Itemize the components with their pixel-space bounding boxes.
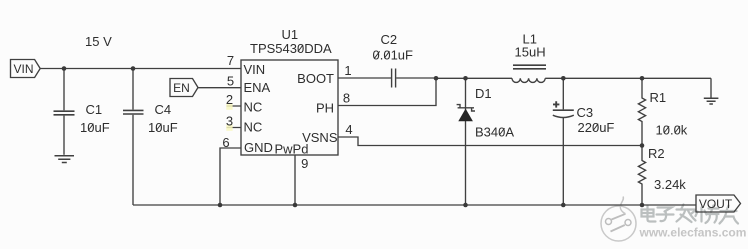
svg-text:C4: C4 (155, 102, 172, 117)
svg-text:9: 9 (301, 156, 308, 171)
svg-text:5: 5 (227, 74, 234, 89)
svg-text:B340A: B340A (475, 125, 514, 140)
svg-text:2: 2 (226, 92, 233, 107)
svg-text:NC: NC (244, 120, 263, 135)
svg-text:U1: U1 (282, 27, 299, 42)
svg-text:EN: EN (173, 81, 190, 95)
svg-text:15 V: 15 V (85, 34, 112, 49)
svg-text:TPS5430DDA: TPS5430DDA (250, 41, 332, 56)
svg-text:R2: R2 (648, 146, 665, 161)
svg-text:4: 4 (345, 122, 352, 137)
svg-text:10.0k: 10.0k (656, 123, 688, 138)
svg-text:www.elecfans.com: www.elecfans.com (639, 226, 747, 240)
svg-text:3: 3 (226, 114, 233, 129)
svg-text:0.01uF: 0.01uF (373, 48, 414, 63)
svg-text:BOOT: BOOT (297, 71, 334, 86)
svg-text:GND: GND (244, 140, 273, 155)
svg-text:VSNS: VSNS (302, 130, 338, 145)
svg-text:VOUT: VOUT (699, 197, 733, 211)
svg-text:10uF: 10uF (80, 120, 110, 135)
svg-text:C2: C2 (381, 32, 398, 47)
svg-text:8: 8 (343, 91, 350, 106)
svg-text:220uF: 220uF (578, 120, 615, 135)
svg-text:ENA: ENA (244, 80, 271, 95)
svg-text:7: 7 (227, 53, 234, 68)
svg-text:3.24k: 3.24k (654, 177, 686, 192)
svg-text:1: 1 (344, 63, 351, 78)
svg-text:PH: PH (316, 101, 334, 116)
svg-text:D1: D1 (475, 86, 492, 101)
svg-text:VIN: VIN (244, 62, 266, 77)
svg-text:VIN: VIN (13, 62, 33, 76)
svg-text:C1: C1 (86, 102, 103, 117)
svg-text:C3: C3 (577, 105, 594, 120)
svg-text:15uH: 15uH (515, 45, 546, 60)
svg-text:10uF: 10uF (148, 120, 178, 135)
svg-text:NC: NC (244, 100, 263, 115)
svg-text:R1: R1 (650, 90, 667, 105)
svg-text:6: 6 (222, 135, 229, 150)
